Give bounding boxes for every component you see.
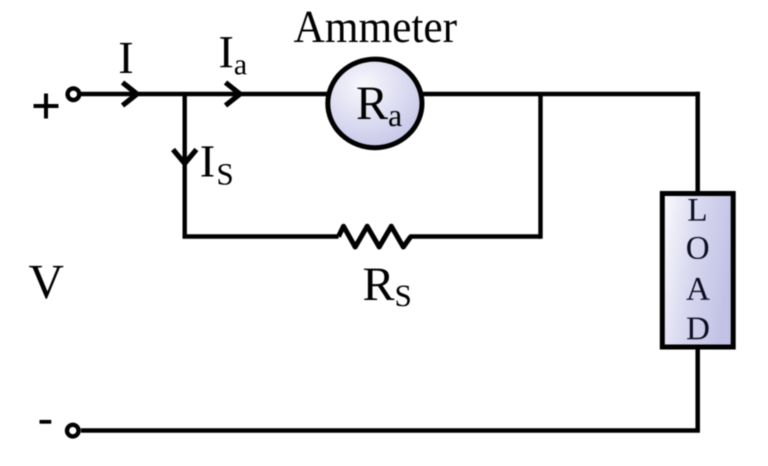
wire shunt right vertical — [538, 94, 542, 239]
label - — [40, 420, 52, 424]
wire top main — [81, 92, 700, 97]
resistor RS zigzag — [339, 226, 411, 247]
label Ra — [357, 88, 401, 127]
label RS — [364, 269, 410, 307]
label Ia — [220, 37, 247, 74]
wire load bottom vertical — [695, 346, 700, 431]
label IS — [201, 146, 231, 184]
wire bottom main — [81, 428, 700, 433]
label I — [120, 43, 132, 73]
wire right vertical to load — [695, 92, 700, 193]
label Ammeter — [294, 12, 457, 43]
terminal + positive — [68, 88, 80, 100]
arrow current Ia — [226, 83, 241, 106]
label V — [29, 266, 63, 299]
wire shunt left vertical — [182, 94, 186, 237]
load RL box — [662, 194, 733, 348]
wire shunt bottom right — [409, 234, 540, 238]
arrow current IS down — [173, 150, 196, 164]
arrow current I — [123, 83, 138, 106]
ammeter U1 circle Ra — [328, 59, 422, 148]
terminal - negative — [67, 425, 79, 437]
label + — [34, 94, 59, 119]
wire shunt bottom left — [183, 234, 339, 238]
label LOAD — [688, 199, 705, 221]
